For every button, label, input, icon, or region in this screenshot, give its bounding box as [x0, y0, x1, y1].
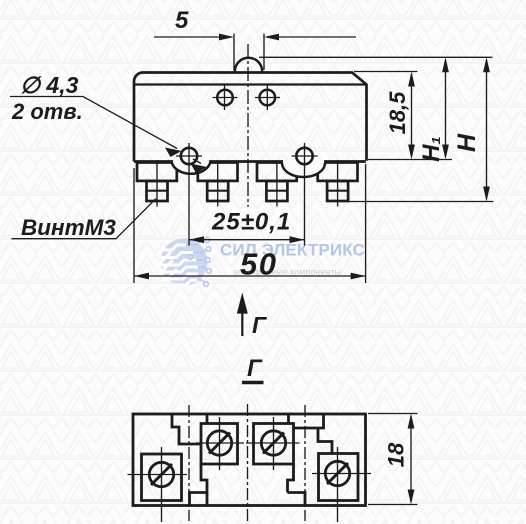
dim H: [486, 60, 488, 199]
section label underline: [242, 381, 264, 385]
terminal T3 narrow: [266, 181, 287, 201]
dim 18,5: [411, 74, 413, 156]
terminal T3 wide: [257, 163, 297, 181]
dim 50 extension lines: [134, 164, 366, 283]
body top inner line: [134, 83, 366, 85]
dim 5 line with arrows: [154, 36, 231, 38]
terminal T1 narrow: [147, 181, 168, 201]
svg-text:Г: Г: [252, 312, 267, 338]
terminal T2 wide: [198, 163, 238, 181]
outer rect: [133, 414, 366, 506]
dim 18 extensions: [368, 414, 418, 505]
dim 25 extension lines: [189, 143, 305, 246]
svg-text:5: 5: [175, 7, 189, 34]
leader diameter label: [10, 97, 177, 149]
pocket contour bottom-right: [288, 464, 294, 493]
center line (dash-dot) front view: [247, 44, 249, 207]
mounting screw right: [296, 148, 312, 164]
terminal T4 narrow: [327, 181, 348, 201]
18,5 top extension: [354, 71, 418, 73]
view direction arrow: [241, 302, 243, 336]
svg-text:18,5: 18,5: [385, 91, 410, 135]
body bottom extension (right): [368, 159, 452, 161]
dim 50 line: [134, 275, 366, 277]
terminal D square: [319, 454, 359, 501]
recess arc right: [282, 160, 325, 177]
dim 25 line: [189, 239, 305, 241]
button top extension line: [259, 56, 493, 58]
svg-text:2 отв.: 2 отв.: [11, 99, 83, 124]
svg-text:H: H: [453, 133, 481, 152]
H bottom extension: [348, 201, 494, 203]
terminal T2 narrow: [207, 181, 228, 201]
svg-text:18: 18: [384, 442, 409, 467]
terminal A square: [142, 454, 182, 501]
body outline: [134, 72, 367, 161]
body bottom line segments: [134, 160, 366, 163]
svg-text:H₁: H₁: [418, 136, 445, 162]
terminal T1 wide: [137, 163, 177, 181]
pocket contour top-left: [172, 415, 201, 444]
dim 5 extension lines: [234, 34, 264, 71]
terminal B square: [201, 424, 238, 465]
pocket contour top-right: [294, 414, 324, 428]
svg-text:25±0,1: 25±0,1: [211, 209, 291, 236]
upper hole left: [217, 90, 233, 106]
dim H1: [445, 60, 447, 157]
svg-text:50: 50: [240, 247, 277, 282]
leader vint label: [11, 199, 156, 239]
button plunger arc: [235, 58, 262, 72]
centerlines dash-dot: [188, 405, 190, 521]
terminal T4 wide: [318, 163, 358, 181]
terminal C square: [254, 424, 294, 465]
svg-text:∅ 4,3: ∅ 4,3: [20, 72, 79, 98]
recess arc left (white fill clips corners): [172, 160, 210, 173]
pocket contour bottom-left: [201, 464, 207, 506]
mounting screw left: [181, 148, 197, 164]
svg-text:Г: Г: [247, 355, 263, 382]
svg-text:ВинтМ3: ВинтМ3: [21, 215, 116, 240]
watermark logo: [157, 237, 365, 286]
upper hole right: [260, 90, 276, 106]
